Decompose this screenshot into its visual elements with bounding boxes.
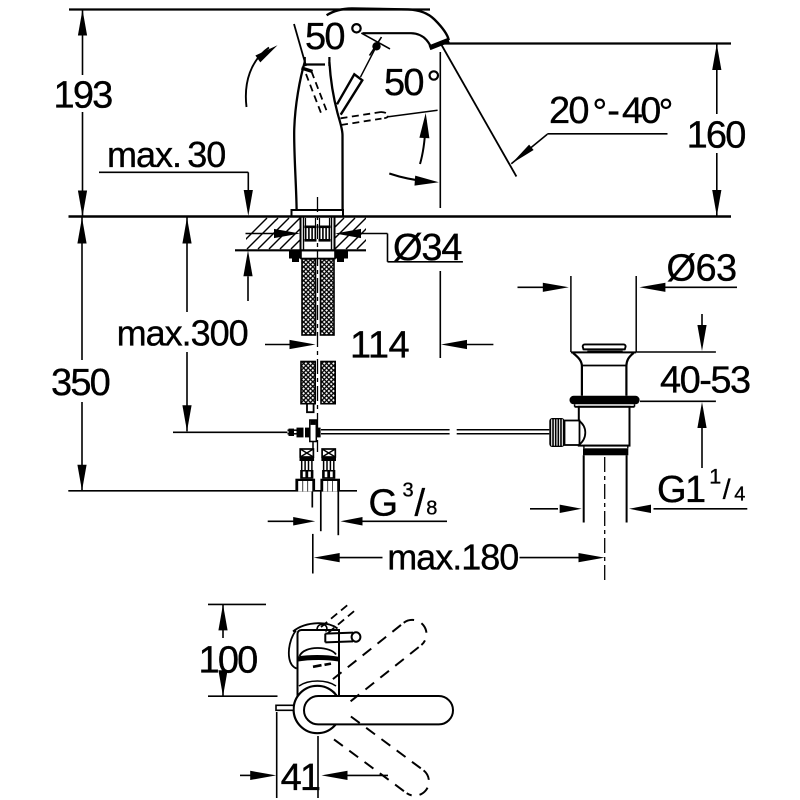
svg-text:160: 160 — [687, 114, 746, 156]
bv handle rod — [304, 696, 453, 724]
mounting studs — [305, 226, 317, 229]
svg-text:Ø63: Ø63 — [667, 248, 737, 290]
svg-text:41: 41 — [281, 757, 320, 799]
spray angle line — [441, 44, 516, 177]
pivot cross line B — [370, 37, 382, 56]
countertop line — [69, 215, 732, 218]
svg-text:Ø34: Ø34 — [393, 227, 462, 269]
svg-text:max.180: max.180 — [387, 537, 518, 578]
bv ellipse above band — [300, 648, 337, 656]
hose connector left — [300, 449, 313, 457]
left tail line — [311, 492, 313, 508]
dim 100 line — [222, 604, 224, 638]
dim 160 top arrow — [712, 44, 721, 70]
rotation arrow up — [420, 120, 426, 164]
svg-text:/: / — [723, 474, 731, 505]
drain knob connector — [565, 421, 580, 446]
drain body — [579, 407, 630, 446]
bv top small loop — [317, 624, 327, 631]
dim 193 bottom arrow — [78, 191, 87, 217]
bv 100 top ref line — [208, 603, 266, 605]
dim 4053 top — [701, 314, 703, 326]
popup vertical pin — [310, 420, 317, 442]
hose nut right — [320, 479, 340, 492]
svg-text:max.300: max.300 — [117, 313, 248, 354]
drain centerline — [604, 457, 606, 580]
drain knurled knob — [549, 418, 564, 447]
drain rubber ring — [570, 396, 640, 405]
svg-text:50: 50 — [305, 16, 344, 58]
shank outer lines — [300, 218, 302, 251]
bv left sketchy bulge — [289, 631, 297, 669]
dim O63 left arrow — [518, 286, 545, 288]
50 deg upper arc arrow — [246, 48, 269, 108]
drain ring lip — [575, 406, 635, 408]
svg-text:max. 30: max. 30 — [107, 134, 225, 175]
svg-text:/: / — [415, 483, 426, 525]
drain black band — [583, 448, 628, 455]
hose upper right — [321, 259, 335, 335]
svg-text:114: 114 — [350, 325, 409, 367]
counter underside line — [235, 249, 366, 251]
svg-text:50: 50 — [384, 62, 423, 104]
dim G1 left arrow — [530, 508, 558, 510]
cartridge thick dash — [302, 68, 313, 72]
hose lower left — [301, 362, 315, 404]
popup rod left line — [288, 429, 301, 431]
dim 350 bottom arrow — [77, 465, 86, 491]
max.300 bottom reference line — [173, 431, 288, 433]
shank inner lines — [303, 218, 305, 251]
svg-text:8: 8 — [426, 497, 437, 519]
drain lower band — [584, 445, 628, 447]
popup cap — [583, 344, 626, 349]
counter cross-section hatching — [236, 218, 399, 249]
dim G38 right arrow — [341, 517, 363, 526]
popup rod right — [457, 429, 550, 431]
dim 193 line — [82, 10, 84, 76]
dim 4053 bottom — [697, 402, 706, 428]
dim max180 — [314, 553, 340, 562]
dim 350 line — [81, 218, 83, 361]
50 deg upper tick line — [294, 24, 306, 66]
bv 41 ext lines — [276, 712, 278, 798]
hose lower right — [321, 362, 335, 404]
hose nut left — [295, 479, 315, 492]
hose upper left — [302, 259, 316, 335]
top reference line (spout top, 193 level) — [69, 8, 430, 10]
svg-text:1: 1 — [709, 464, 721, 488]
bv small dashes — [313, 665, 322, 667]
spout outlet reference line (160 level) — [444, 42, 731, 44]
spout axis line — [439, 52, 441, 208]
bv dashed handle up — [333, 620, 427, 701]
svg-text:3: 3 — [403, 480, 414, 502]
dim O34 left arrow — [246, 233, 276, 235]
dim max.300 line — [186, 218, 188, 313]
svg-text:40: 40 — [622, 89, 660, 131]
dim O63 right arrow — [639, 283, 665, 292]
svg-text:40-53: 40-53 — [660, 360, 750, 402]
max.30 up arrow — [243, 250, 252, 276]
label 20-40 leader — [511, 134, 547, 164]
dim 100 top arrow — [218, 604, 227, 630]
dim 160 line — [716, 44, 718, 114]
faucet body outline right — [329, 62, 342, 210]
popup linkage blocks — [289, 429, 295, 436]
svg-text:G1: G1 — [657, 469, 705, 511]
lever pivot dot — [372, 42, 380, 50]
lever dashed rod — [341, 112, 382, 118]
drain tail pipe — [583, 455, 585, 522]
O63 ext lines — [570, 276, 572, 352]
bv dashed mini lever — [321, 603, 350, 627]
4053 bottom ref line — [640, 400, 716, 402]
bv lower body sketch — [299, 681, 336, 686]
dim 193 top arrow — [78, 10, 87, 36]
dim 350 top arrow — [77, 218, 86, 244]
dim max.300 bottom arrow — [182, 405, 191, 431]
spout outer curve — [327, 9, 449, 41]
pivot cross line A — [361, 33, 390, 49]
svg-text:100: 100 — [198, 640, 257, 682]
drain flare — [571, 351, 636, 353]
lever handle rod — [337, 74, 362, 114]
spout inner curve — [363, 33, 432, 49]
svg-text:-: - — [607, 90, 620, 132]
max.30 leader underline — [99, 171, 248, 173]
popup rod mid — [321, 429, 450, 431]
hose connector right — [322, 449, 335, 457]
bv 100 bottom ref line — [208, 695, 278, 697]
dim 114 left arrow — [265, 344, 291, 346]
dim O34 right arrow — [335, 229, 361, 238]
bv body outline — [298, 630, 340, 700]
max180 left ext line — [312, 534, 314, 574]
cartridge dashed lines — [306, 74, 321, 113]
dim 160 bottom arrow — [712, 190, 721, 216]
dim 41 — [240, 774, 251, 776]
dim 350 bottom reference line — [68, 490, 357, 492]
bv bonnet circle — [294, 686, 341, 733]
faucet centerline — [317, 197, 319, 452]
max.30 down arrow — [244, 190, 253, 216]
4053 top ref line — [636, 351, 716, 353]
dim 100 bottom arrow — [218, 670, 227, 696]
svg-text:20: 20 — [549, 90, 588, 132]
bv popup stub — [276, 705, 294, 710]
faucet neck lines — [304, 57, 306, 66]
right tail pipe — [320, 492, 322, 532]
svg-text:193: 193 — [53, 75, 112, 117]
locknut — [289, 251, 301, 259]
O34 leader — [387, 234, 389, 262]
svg-text:350: 350 — [51, 362, 110, 404]
bv lever cylinder — [325, 633, 353, 643]
dim G1 right arrow — [629, 505, 651, 513]
rotation arrow right — [389, 174, 430, 182]
hose left tail stub — [307, 404, 314, 412]
spout aerator tip face — [430, 40, 449, 48]
bv top sketch arc — [293, 623, 338, 631]
dim G38 left arrow — [268, 520, 295, 522]
lever centerline — [361, 48, 376, 77]
dim 114 right arrow — [441, 340, 467, 349]
faucet body outline left — [294, 62, 305, 210]
dim max.300 top arrow — [182, 218, 191, 244]
svg-text:G: G — [369, 483, 399, 525]
faucet base flange — [292, 210, 344, 217]
bv black band — [297, 655, 339, 662]
bv dashed handle down — [334, 717, 429, 796]
lever extension tick — [388, 110, 437, 117]
svg-text:4: 4 — [734, 484, 745, 506]
